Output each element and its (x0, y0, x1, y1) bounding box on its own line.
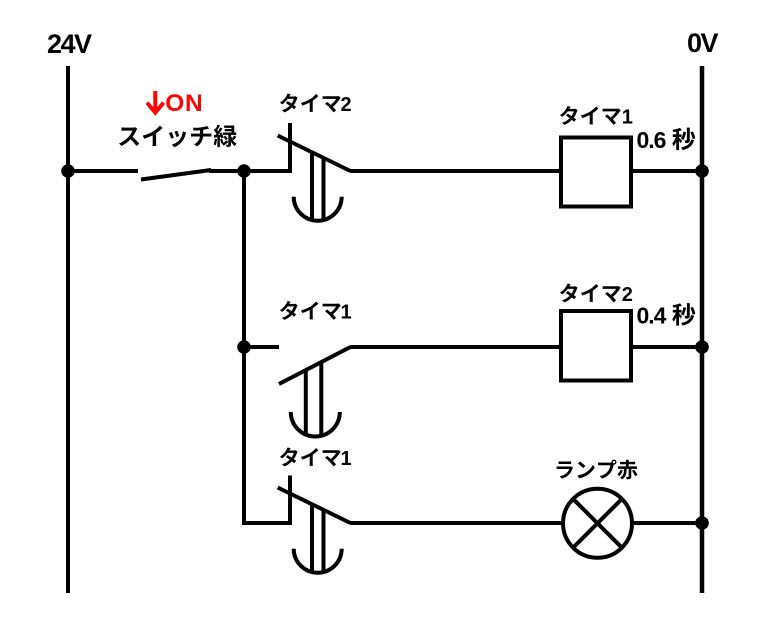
rail 24V (left power rail) (66, 66, 70, 593)
svg-text:0.6: 0.6 (637, 127, 666, 153)
node J4 (branch / rung 2) (237, 340, 251, 354)
value 0.6秒 (637, 127, 696, 153)
label タイマ2 (contact 1) (280, 93, 352, 116)
contact K3 タイマ1 (NC off-delay timed contact) (278, 476, 351, 573)
node J6 (0V rail / rung 3) (695, 516, 709, 530)
svg-text:1: 1 (341, 448, 352, 470)
svg-text:ON: ON (165, 90, 203, 117)
wire rung2 contact to coil (350, 345, 563, 349)
svg-text:0V: 0V (687, 28, 719, 58)
value 0.4秒 (637, 303, 696, 329)
wire rung3 branch corner to contact (242, 521, 292, 525)
wire rung1 contact to coil (350, 169, 561, 173)
node J5 (0V rail / rung 2) (695, 340, 709, 354)
wire rung1 switch to contact (209, 169, 292, 173)
label タイマ1 (coil 1) (560, 106, 633, 129)
timer coil TIM2 タイマ2 (box) (561, 311, 631, 381)
svg-text:2: 2 (622, 284, 633, 306)
label スイッチ緑 (119, 125, 237, 148)
timer coil TIM1 タイマ1 (box) (561, 138, 631, 207)
svg-text:24V: 24V (47, 29, 92, 59)
label タイマ2 (coil 2) (560, 283, 633, 306)
svg-text:2: 2 (341, 94, 352, 116)
rail 0V (right power rail) (700, 66, 705, 593)
node J2 (branch / rung 1) (237, 164, 251, 178)
label ↓ON (red, switch actuation) (147, 91, 164, 113)
svg-text:1: 1 (622, 107, 633, 129)
node J3 (0V rail / rung 1) (695, 164, 709, 178)
wire rung1 from rail to switch (68, 169, 138, 173)
switch S1 スイッチ緑 (NO pushbutton blade) (141, 170, 211, 180)
node J1 (24V rail / rung 1) (61, 164, 75, 178)
wire branch vertical (rung1 to rung3) (242, 171, 246, 523)
wire rung2 branch to contact (244, 345, 279, 349)
contact K2 タイマ1 (NO on-delay timed contact) (279, 347, 350, 437)
label タイマ1 (contact 2) (280, 301, 352, 324)
wire rung1 coil to 0V rail (633, 169, 702, 173)
wire rung3 lamp to 0V rail (632, 521, 702, 525)
wire rung3 contact to lamp (350, 521, 563, 525)
svg-text:1: 1 (341, 302, 352, 324)
wire rung2 coil to 0V rail (633, 345, 702, 349)
lamp L1 ランプ赤 (indicator lamp, circle with X) (563, 489, 632, 558)
label ランプ赤 (557, 460, 638, 480)
svg-text:0.4: 0.4 (637, 303, 667, 329)
contact K1 タイマ2 (NC off-delay timed contact) (278, 123, 351, 221)
label タイマ1 (contact 3) (280, 447, 352, 470)
